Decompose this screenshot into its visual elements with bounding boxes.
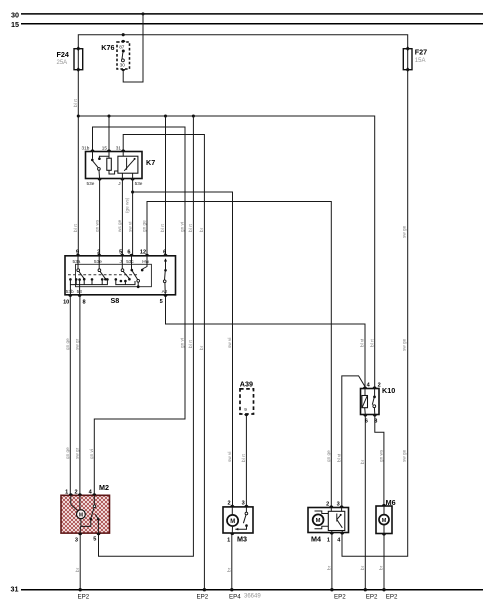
svg-text:3: 3	[337, 501, 340, 507]
svg-text:gn vi: gn vi	[89, 449, 94, 459]
svg-text:1: 1	[65, 490, 68, 496]
svg-text:bl rt: bl rt	[241, 453, 246, 462]
K7 internal contact	[91, 152, 109, 179]
S8 rail 2 stub	[124, 281, 126, 285]
motor M6 box	[376, 504, 392, 536]
wire S8 pin5 to K10 pin4	[166, 295, 366, 389]
wire K7 pin15	[108, 116, 110, 152]
svg-text:EP2: EP2	[334, 593, 346, 600]
svg-text:K7: K7	[146, 158, 155, 167]
S8 contact rail 1	[70, 279, 107, 284]
svg-text:bl rt: bl rt	[73, 98, 78, 107]
svg-text:2: 2	[74, 490, 77, 496]
svg-text:87: 87	[119, 45, 125, 50]
svg-text:2: 2	[326, 501, 329, 507]
K10 contact	[372, 389, 376, 415]
wire S8 pin10 to M2 pin1	[69, 295, 71, 496]
wire branch to M3 pin2	[133, 192, 233, 507]
wire A39 to M3 pin3	[245, 414, 247, 507]
junction A-K7.15	[107, 114, 110, 117]
svg-text:8: 8	[83, 299, 86, 305]
svg-text:EP2: EP2	[366, 593, 378, 600]
svg-text:gn vi: gn vi	[180, 338, 185, 348]
svg-text:gn ge: gn ge	[65, 338, 70, 350]
svg-text:8: 8	[374, 418, 377, 424]
wire S8 Hw to M4 pin2	[147, 202, 331, 508]
wire bus A y116	[78, 116, 374, 389]
wire F24 down to S8 pin 9	[77, 70, 79, 256]
S8 mechanical link dashed	[68, 274, 137, 276]
S8 pin8 internal	[79, 280, 81, 295]
S8 contact Hw	[141, 256, 147, 272]
wire M4 pin3 to K10 pin4	[342, 376, 365, 508]
svg-text:gn ge: gn ge	[142, 220, 147, 232]
wire bus 30	[21, 13, 483, 15]
svg-text:br: br	[227, 567, 232, 572]
svg-text:25A: 25A	[57, 60, 68, 66]
svg-text:M2: M2	[99, 483, 109, 492]
motor M2 box hatched	[61, 490, 110, 544]
svg-text:A39: A39	[240, 379, 253, 388]
wire M3 pin1 to ground	[231, 533, 233, 590]
svg-text:gn ws: gn ws	[379, 449, 384, 462]
wire line A to M2 pin5	[99, 116, 194, 556]
svg-text:12: 12	[140, 250, 146, 256]
svg-text:EP2: EP2	[78, 593, 90, 600]
svg-text:sw vi: sw vi	[227, 452, 232, 462]
wire bus C y134.5 K7 31 to ground	[123, 135, 204, 590]
svg-text:1: 1	[227, 537, 230, 543]
svg-text:K10: K10	[382, 386, 395, 395]
svg-text:bl rt: bl rt	[188, 339, 193, 348]
K7 pin bumps bottom	[98, 179, 102, 181]
wire M6 to ground	[383, 534, 385, 590]
relay K10 box	[361, 389, 380, 415]
svg-text:36649: 36649	[244, 593, 261, 599]
svg-text:31: 31	[11, 585, 19, 594]
S8 contact rail 2	[116, 279, 135, 284]
ground junction K10	[364, 588, 367, 591]
S8 inner box	[76, 264, 152, 286]
svg-text:bl vi: bl vi	[360, 339, 365, 347]
svg-text:5: 5	[119, 250, 122, 256]
K7 internal electronic module	[118, 152, 138, 179]
svg-text:sw vi: sw vi	[127, 222, 132, 232]
M2 pin bumps	[69, 493, 73, 495]
svg-text:53c: 53c	[126, 259, 134, 264]
svg-text:S8: S8	[111, 296, 120, 305]
S8 pin bumps top	[76, 254, 80, 256]
junction A-M2.5	[192, 114, 195, 117]
svg-text:br: br	[360, 459, 365, 464]
ground junction M4	[330, 588, 333, 591]
svg-text:(ge ws): (ge ws)	[125, 197, 130, 213]
svg-text:bl rt: bl rt	[188, 223, 193, 232]
wire fused feed line	[78, 35, 407, 49]
S8 pin bumps bottom	[68, 295, 72, 297]
svg-text:10: 10	[63, 299, 69, 305]
svg-text:gn ge: gn ge	[65, 447, 70, 459]
svg-text:br: br	[199, 345, 204, 350]
svg-text:6: 6	[163, 250, 166, 256]
wire K7 53e to S8 pin6 and M3	[132, 179, 134, 256]
svg-text:J: J	[120, 259, 122, 264]
wire line A to S8 pin6	[165, 116, 167, 256]
svg-text:31b: 31b	[82, 146, 90, 151]
svg-text:sw ge: sw ge	[401, 449, 406, 462]
svg-text:53a: 53a	[73, 259, 81, 264]
svg-text:53e: 53e	[87, 181, 95, 186]
svg-text:sw vi: sw vi	[227, 338, 232, 348]
svg-text:sw ge: sw ge	[401, 225, 406, 238]
wire M4 pin1 to ground	[331, 533, 333, 590]
svg-text:ws ge: ws ge	[117, 219, 122, 232]
svg-text:9: 9	[76, 250, 79, 256]
svg-text:M: M	[79, 512, 83, 518]
S8 contact 53a	[77, 256, 86, 281]
motor M3 box	[223, 501, 253, 544]
svg-text:M: M	[316, 518, 321, 524]
svg-text:br: br	[379, 565, 384, 570]
wire K10 pin6 to ground	[364, 415, 366, 590]
junction A-F24	[77, 114, 80, 117]
svg-text:9: 9	[244, 407, 247, 412]
svg-text:sw ge: sw ge	[401, 338, 406, 351]
ground junction M6	[382, 588, 385, 591]
wire F27 to M4 pin4	[342, 70, 408, 557]
svg-text:gn vi: gn vi	[180, 222, 185, 232]
svg-text:gn ge: gn ge	[326, 450, 331, 462]
svg-text:bl vi: bl vi	[337, 454, 342, 462]
K7 internal resistor	[107, 152, 118, 175]
svg-text:53e: 53e	[135, 181, 143, 186]
svg-text:bl rt: bl rt	[369, 338, 374, 347]
S8 pin10 internal	[69, 285, 71, 295]
svg-text:2: 2	[97, 250, 100, 256]
wire M2 pin3 to ground	[79, 533, 81, 590]
wire K7 J to S8 pin5	[121, 179, 123, 256]
svg-text:EP2: EP2	[197, 593, 209, 600]
wire K76 to line 30	[123, 14, 143, 82]
svg-text:bl rt: bl rt	[160, 223, 165, 232]
ground junction M3	[230, 588, 233, 591]
junction K76 top	[122, 33, 125, 36]
K7 pin bumps top	[90, 149, 94, 151]
wire bus B y127 to K7 31b and M2 pin4	[93, 127, 186, 495]
svg-text:31: 31	[116, 146, 122, 151]
svg-text:br: br	[75, 567, 80, 572]
svg-text:bl rt: bl rt	[73, 223, 78, 232]
fuse F27	[403, 46, 412, 72]
M2 motor	[77, 510, 86, 519]
wire K7 53e to S8 pin2	[99, 179, 101, 256]
svg-text:30: 30	[120, 63, 126, 68]
svg-text:M: M	[382, 518, 387, 524]
wire bus 15	[21, 23, 483, 25]
svg-text:M: M	[230, 519, 235, 525]
svg-text:F27: F27	[415, 48, 427, 57]
svg-text:F24: F24	[57, 50, 69, 59]
relay K76	[117, 40, 130, 71]
svg-text:3: 3	[75, 538, 78, 544]
wire S8 pin8 to M2 pin2	[79, 295, 81, 496]
junction A-S8.6	[164, 114, 167, 117]
ground junction M2	[79, 588, 82, 591]
switch S8 box	[65, 256, 176, 295]
K10 pin bumps	[363, 386, 367, 388]
svg-text:M4: M4	[311, 534, 321, 543]
svg-text:15: 15	[11, 20, 19, 29]
svg-text:2: 2	[227, 501, 230, 507]
svg-text:sw gr: sw gr	[75, 447, 80, 459]
svg-text:Hw: Hw	[142, 259, 149, 264]
S8 contact 53e	[98, 256, 107, 281]
ground junction br	[203, 588, 206, 591]
svg-text:J: J	[118, 181, 120, 186]
svg-text:br: br	[199, 227, 204, 232]
junction K7 53e branch	[131, 190, 134, 193]
relay K7 box	[86, 152, 143, 179]
svg-text:EP4: EP4	[229, 593, 241, 600]
svg-text:EP2: EP2	[386, 593, 398, 600]
svg-text:sw gr: sw gr	[75, 338, 80, 350]
junction on line 30	[141, 12, 144, 15]
svg-text:M3: M3	[237, 534, 247, 543]
S8 fixed contacts row	[69, 278, 72, 281]
svg-text:gn ws: gn ws	[94, 219, 99, 232]
svg-text:5: 5	[93, 537, 96, 543]
svg-text:br: br	[327, 565, 332, 570]
ground bus 31	[21, 589, 483, 591]
svg-text:53e: 53e	[94, 259, 102, 264]
svg-text:6: 6	[127, 250, 130, 256]
connector A39	[240, 389, 254, 416]
S8 contact 53c	[131, 256, 140, 288]
K10 coil	[362, 389, 368, 415]
S8 rail 1 stubs	[75, 279, 77, 284]
fuse F24	[74, 46, 83, 72]
svg-text:1: 1	[327, 537, 330, 543]
S8 A switch	[163, 258, 167, 295]
svg-text:5: 5	[160, 299, 163, 305]
svg-text:6: 6	[365, 418, 368, 424]
svg-text:br: br	[360, 565, 365, 570]
svg-text:K76: K76	[101, 43, 114, 52]
svg-text:30: 30	[11, 10, 19, 19]
S8 contact J	[121, 256, 131, 281]
motor M4 box	[308, 501, 349, 543]
wire K10 pin8 to M6	[375, 415, 384, 507]
svg-text:15: 15	[102, 146, 108, 151]
svg-text:3: 3	[242, 501, 245, 507]
svg-text:15A: 15A	[415, 58, 426, 64]
svg-text:2: 2	[378, 382, 381, 388]
